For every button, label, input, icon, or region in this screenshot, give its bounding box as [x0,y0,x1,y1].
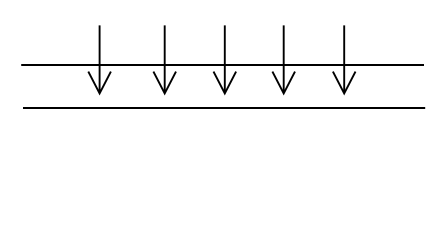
field arrow 3 [214,25,237,93]
field arrow 2 [153,25,176,93]
lower boundary line [23,107,425,109]
field arrow 1 [88,25,111,93]
field arrow 5 [333,25,356,93]
upper boundary line [21,64,424,66]
field arrow 4 [272,25,295,93]
